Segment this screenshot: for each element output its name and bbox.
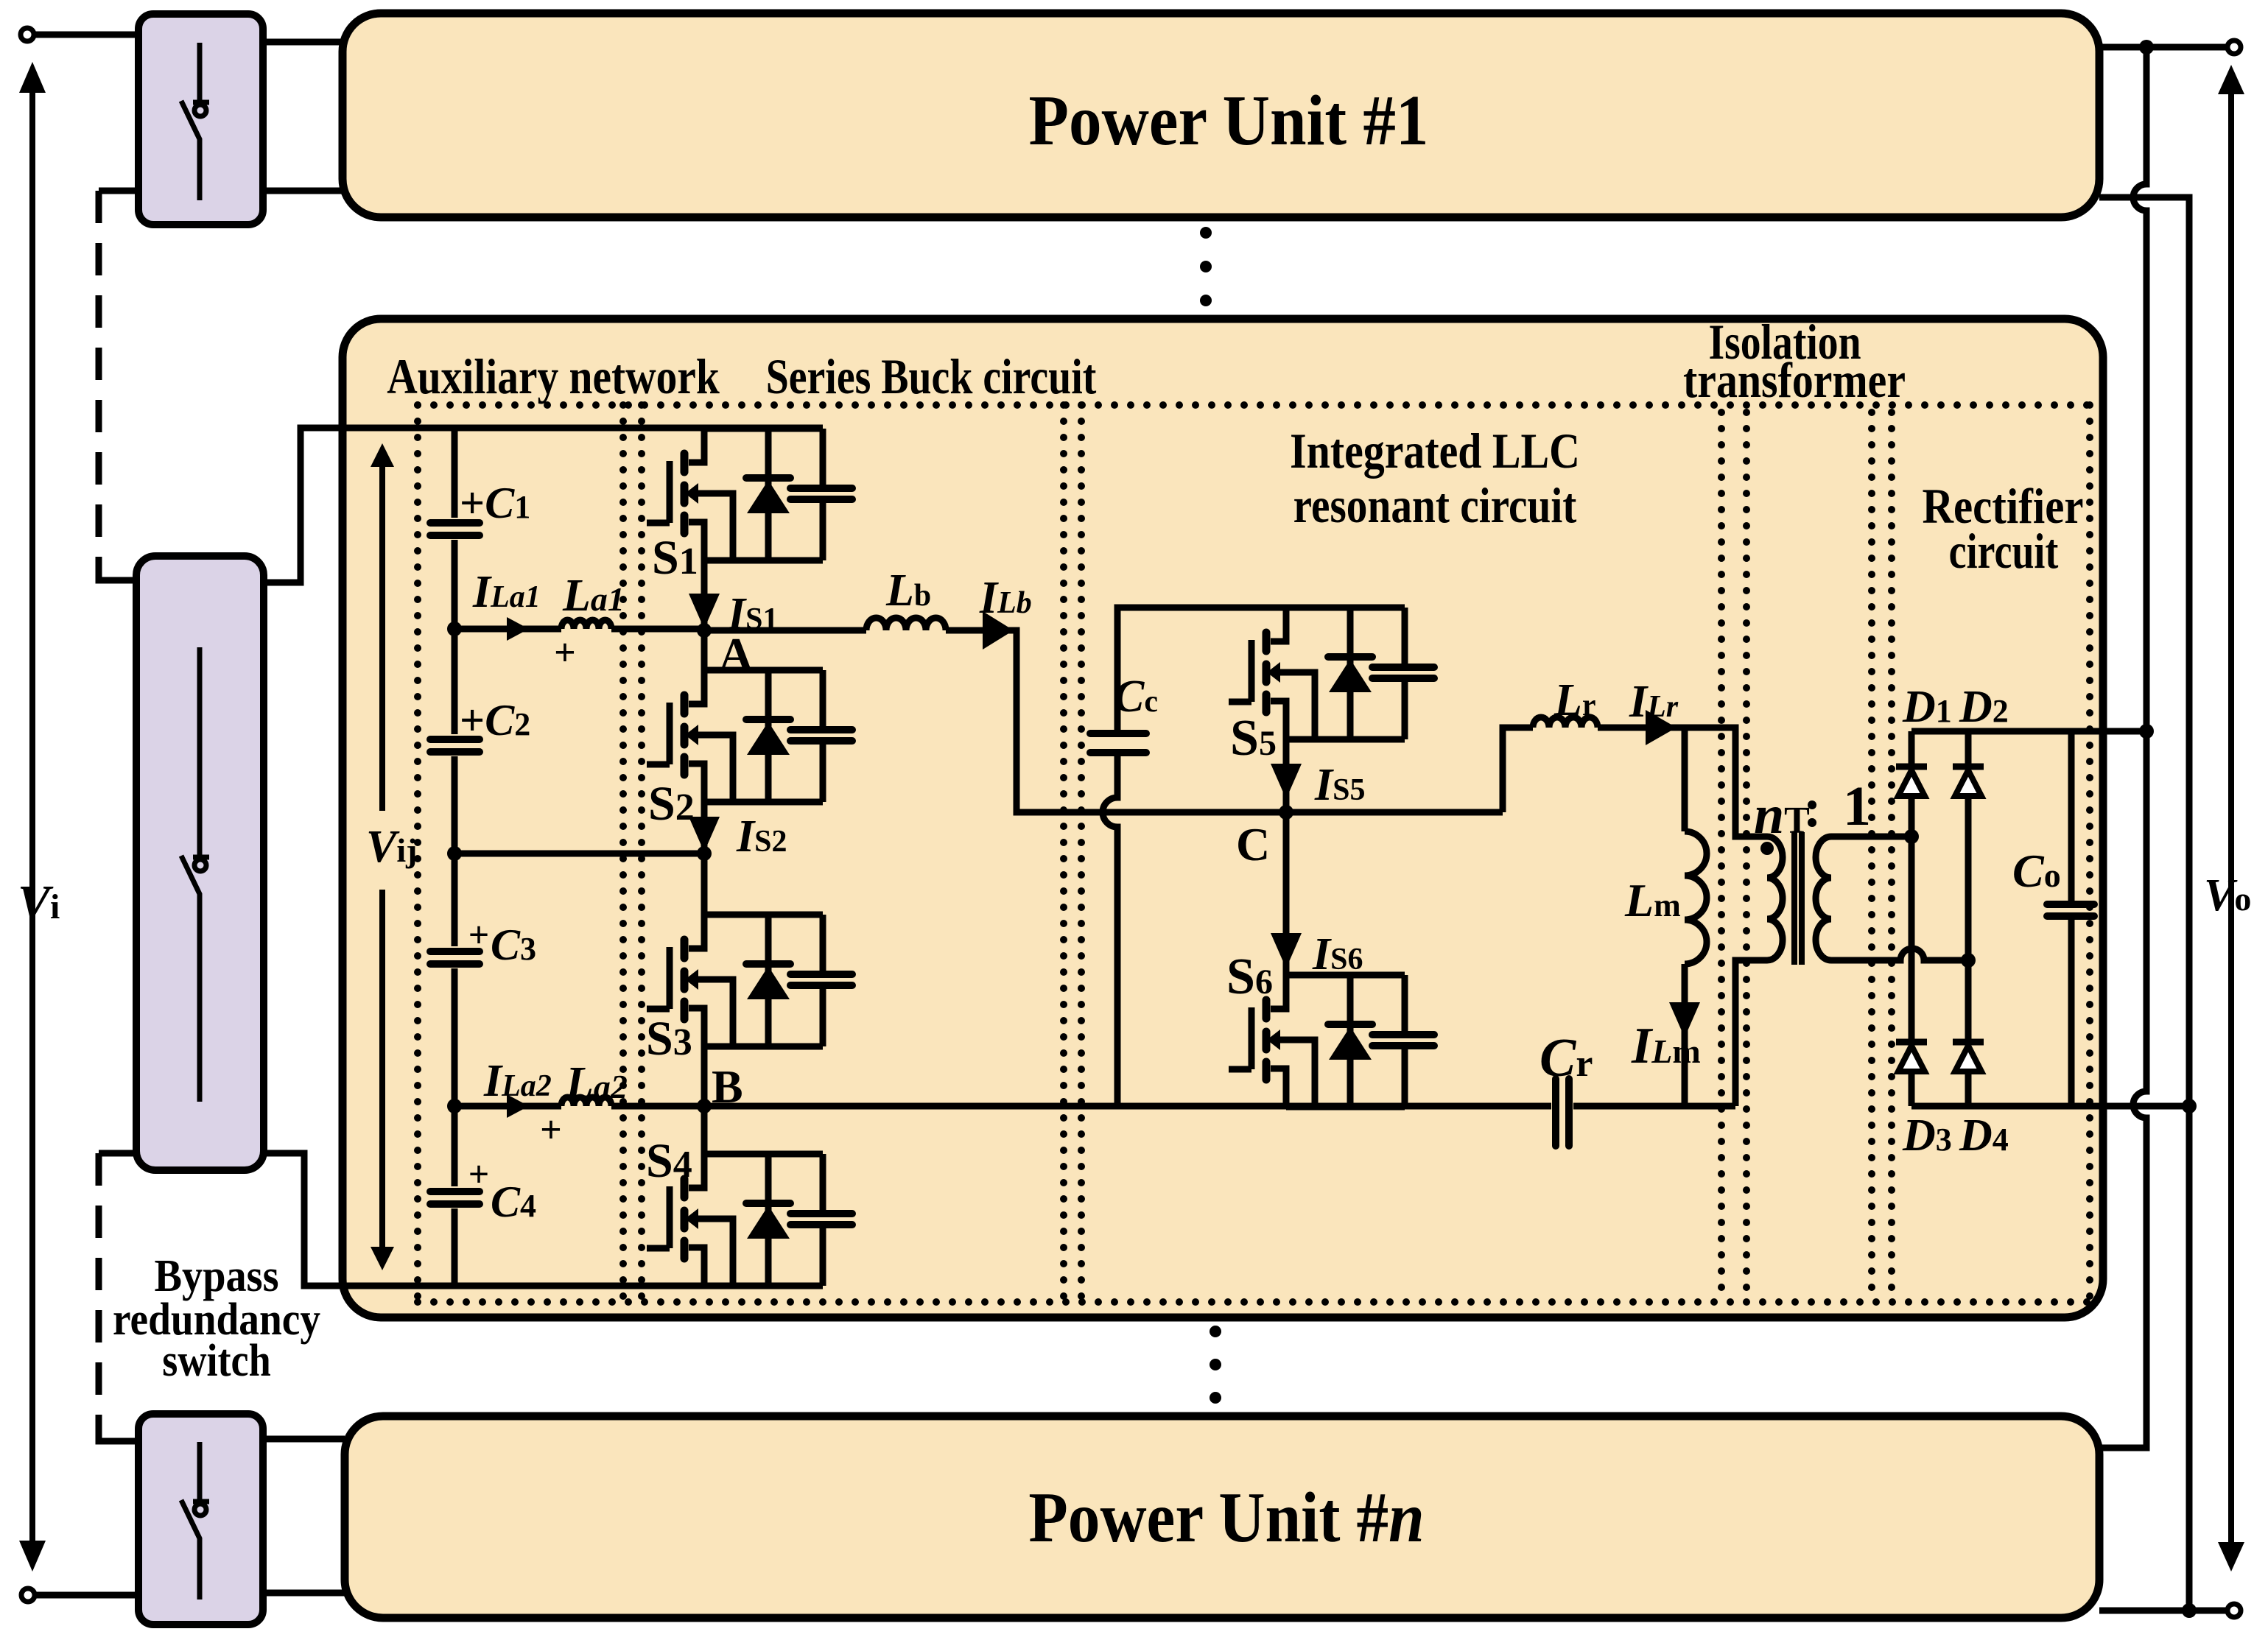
input terminal top left <box>21 28 34 41</box>
input terminal bottom left <box>21 1588 35 1602</box>
PU1 lower output wire <box>2099 197 2189 1611</box>
wire Lr to transformer <box>1598 728 1767 837</box>
capacitor C1 <box>430 523 480 535</box>
node S2-S3 junction <box>697 846 712 861</box>
svg-text:Vo: Vo <box>2204 870 2251 921</box>
rectifier top rail <box>1911 728 2146 735</box>
capacitor Cr plates <box>1556 1079 1569 1146</box>
svg-text:+: + <box>468 1153 490 1194</box>
output wire PU1 top <box>2099 44 2226 51</box>
capacitor chain wire <box>452 428 458 1286</box>
wire switch2 top right <box>264 428 823 583</box>
S1 source wire <box>701 560 708 630</box>
transformer polarity dot <box>1760 842 1774 855</box>
node ILa1 junction <box>447 622 462 636</box>
transistor S1 <box>647 429 852 560</box>
svg-text:Series Buck circuit: Series Buck circuit <box>766 350 1097 404</box>
wire La1 to node A <box>611 626 704 633</box>
switch symbol top <box>181 43 209 200</box>
diode D1 <box>1896 767 1927 796</box>
wire node to La1 <box>454 626 561 633</box>
transistor S3 <box>647 915 852 1046</box>
capacitor Cc top wire <box>1117 608 1286 730</box>
wire switch3 to PUn <box>263 1590 345 1597</box>
ILa1 arrow <box>507 617 529 641</box>
diode D2 <box>1953 767 1984 796</box>
diode D4 <box>1953 1042 1984 1071</box>
D2 leg wire <box>1965 731 1972 1106</box>
capacitor Co lead top <box>2068 731 2075 901</box>
wire Lb to corner down to C rail <box>946 630 1503 812</box>
Power Unit #1 box <box>343 13 2099 217</box>
secondary top junction <box>1904 829 1919 844</box>
bypass switch box middle <box>136 556 264 1170</box>
svg-text:Integrated LLC: Integrated LLC <box>1290 423 1580 479</box>
ILm arrow <box>1669 1002 1700 1038</box>
inductor Lr <box>1533 717 1598 728</box>
dashed bypass link bottom <box>96 1153 102 1440</box>
ILb arrow <box>983 611 1014 650</box>
S6 drain wire <box>1283 812 1290 975</box>
IS5 arrow <box>1271 764 1302 799</box>
svg-text:Power Unit #n: Power Unit #n <box>1028 1478 1424 1557</box>
bypass switch box top <box>138 14 263 225</box>
junction top right <box>2139 40 2154 54</box>
inductor La2 <box>561 1097 611 1106</box>
svg-text:+: + <box>468 914 490 955</box>
right bus line with hops <box>2099 47 2146 1448</box>
output terminal top right <box>2227 41 2241 54</box>
inductor Lb <box>866 618 946 630</box>
svg-text:1: 1 <box>1843 775 1871 837</box>
node ILa2 junction <box>447 1099 462 1113</box>
capacitor Co lead bottom <box>2068 920 2075 1106</box>
Vi arrow <box>19 62 46 1572</box>
capacitor Cc bottom wire with hop <box>1103 756 1117 1106</box>
wire switch2 bottom right <box>264 1153 823 1286</box>
S2 drain wire <box>701 630 708 670</box>
wire node A to Lb <box>704 627 866 634</box>
transformer primary bottom wire <box>1735 960 1767 1106</box>
switch symbol bottom <box>181 1442 209 1599</box>
wire switch1 bottom right to PU1 <box>263 188 343 194</box>
S4 drain wire <box>701 1106 708 1154</box>
transistor S5 <box>1229 608 1434 739</box>
wire terminal to switch1 <box>34 32 138 38</box>
ILa2 arrow <box>507 1094 529 1118</box>
inductor Lm <box>1685 831 1707 964</box>
junction rectifier top rail <box>2139 724 2154 739</box>
svg-text:circuit: circuit <box>1949 524 2059 579</box>
dashed bypass link top <box>96 191 102 566</box>
ILr arrow <box>1646 710 1677 745</box>
wire switch3 top right to PUn <box>263 1436 345 1443</box>
transistor S2 <box>647 670 852 802</box>
wire dashed corner to switch2 <box>99 564 136 580</box>
Lm bottom wire <box>1682 964 1688 1106</box>
capacitor C3 <box>430 951 480 964</box>
svg-text::: : <box>1803 778 1822 839</box>
S5 source wire <box>1283 739 1290 812</box>
S3 source wire <box>701 1046 708 1106</box>
junction rectifier bottom rail <box>2182 1099 2197 1113</box>
transistor S6 <box>1229 975 1434 1107</box>
mid chain rail <box>447 846 462 861</box>
vertical ellipsis bottom <box>1210 1326 1221 1404</box>
svg-text:switch: switch <box>162 1334 270 1386</box>
wire switch1 bottom left <box>99 188 138 194</box>
IS2 arrow <box>689 817 720 852</box>
IS6 arrow <box>1271 933 1302 968</box>
diode D3 <box>1896 1042 1927 1071</box>
inductor Lm branch <box>1682 728 1688 831</box>
svg-text:Auxiliary network: Auxiliary network <box>387 349 720 405</box>
wire dashed corner to switch3 <box>99 1425 138 1441</box>
secondary top wire <box>1831 834 1911 840</box>
secondary bottom junction <box>1961 953 1976 968</box>
transformer core <box>1794 832 1802 965</box>
capacitor C4 <box>430 1192 480 1204</box>
svg-text:B: B <box>712 1060 743 1113</box>
junction bottom right <box>2182 1603 2197 1618</box>
wire C rail up to Lr <box>1503 728 1533 812</box>
svg-text:C: C <box>1236 818 1270 870</box>
svg-text:Vi: Vi <box>18 876 60 929</box>
vertical ellipsis top <box>1200 227 1212 306</box>
wire node to La2 <box>454 1103 561 1110</box>
Vo arrow <box>2218 65 2244 1572</box>
transformer secondary winding <box>1816 837 1831 960</box>
svg-text:+: + <box>540 1109 562 1151</box>
svg-text:resonant circuit: resonant circuit <box>1293 477 1577 533</box>
PUn lower output wire <box>2099 1608 2226 1614</box>
B rail right of Cr <box>1573 1103 1735 1110</box>
bypass switch box bottom <box>138 1414 263 1625</box>
S2 source wire <box>701 802 708 854</box>
dotted partition boxes <box>418 405 2090 1302</box>
Power Unit #i detail box <box>343 319 2103 1317</box>
svg-text:transformer: transformer <box>1683 353 1906 408</box>
output terminal bottom right <box>2227 1604 2241 1617</box>
wire switch1 to PU1 <box>263 39 343 46</box>
transformer primary winding <box>1767 837 1783 960</box>
rectifier bottom rail <box>1911 1103 2189 1110</box>
IS1 arrow <box>689 594 720 629</box>
wire terminal to switch3 <box>35 1592 138 1599</box>
svg-text:+: + <box>554 632 576 674</box>
Vij arrow <box>371 443 394 1270</box>
wire La2 to node B rail <box>611 1103 1551 1110</box>
inductor La1 <box>561 620 611 629</box>
wire switch2 bottom left <box>99 1150 136 1157</box>
node A junction <box>697 623 712 638</box>
transistor S4 <box>647 1154 852 1286</box>
node B junction <box>697 1099 712 1113</box>
capacitor Cc plates <box>1090 733 1146 753</box>
svg-text:Power Unit #1: Power Unit #1 <box>1029 82 1429 161</box>
capacitor Co plates <box>2047 904 2094 916</box>
S3 drain wire <box>701 854 708 915</box>
node C junction <box>1279 805 1293 820</box>
switch symbol middle <box>181 647 209 1102</box>
capacitor C2 <box>430 739 480 752</box>
D1 leg wire <box>1909 731 1915 1106</box>
secondary bottom wire with hop over D1 leg <box>1831 949 1968 960</box>
Power Unit #n box <box>345 1416 2099 1618</box>
